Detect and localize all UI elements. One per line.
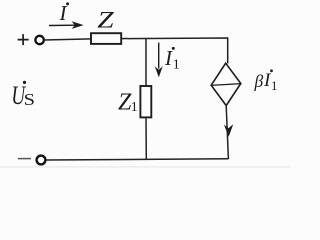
current arrow I (top) [49, 21, 84, 29]
impedance Z (series box) [91, 33, 121, 44]
svg-text:I: I [59, 1, 68, 25]
wire: right branch lower with arrowhead [224, 106, 233, 159]
impedance Z1 (shunt box) [140, 86, 151, 117]
dependent current source βI1 (diamond) [211, 63, 242, 105]
label U-dot s (source voltage) [11, 81, 35, 110]
label Z1 [118, 89, 138, 115]
wire: top rail right segment + corner down to source [121, 38, 228, 63]
svg-text:1: 1 [131, 100, 138, 115]
label βI1-dot [254, 69, 278, 93]
svg-text:S: S [24, 91, 35, 110]
current arrow I1 (middle) [155, 43, 163, 78]
svg-text:I: I [164, 46, 173, 70]
wire: top rail left segment [44, 39, 91, 40]
scan artifact: faint bottom streak [0, 166, 291, 167]
svg-text:1: 1 [173, 58, 180, 73]
terminal + (positive) [18, 34, 29, 45]
wire: middle branch upper [145, 38, 147, 86]
terminal node top-left circle [35, 36, 43, 44]
svg-text:β: β [254, 71, 264, 91]
label I-dot (current İ) [59, 1, 70, 25]
label I1-dot (current İ1) [164, 46, 180, 73]
wire: bottom rail [46, 159, 229, 160]
terminal node bottom-left circle [37, 156, 46, 165]
svg-text:1: 1 [271, 78, 278, 93]
wire: middle branch lower [145, 117, 147, 159]
svg-text:Z: Z [97, 6, 114, 32]
terminal - (negative) [18, 158, 31, 160]
